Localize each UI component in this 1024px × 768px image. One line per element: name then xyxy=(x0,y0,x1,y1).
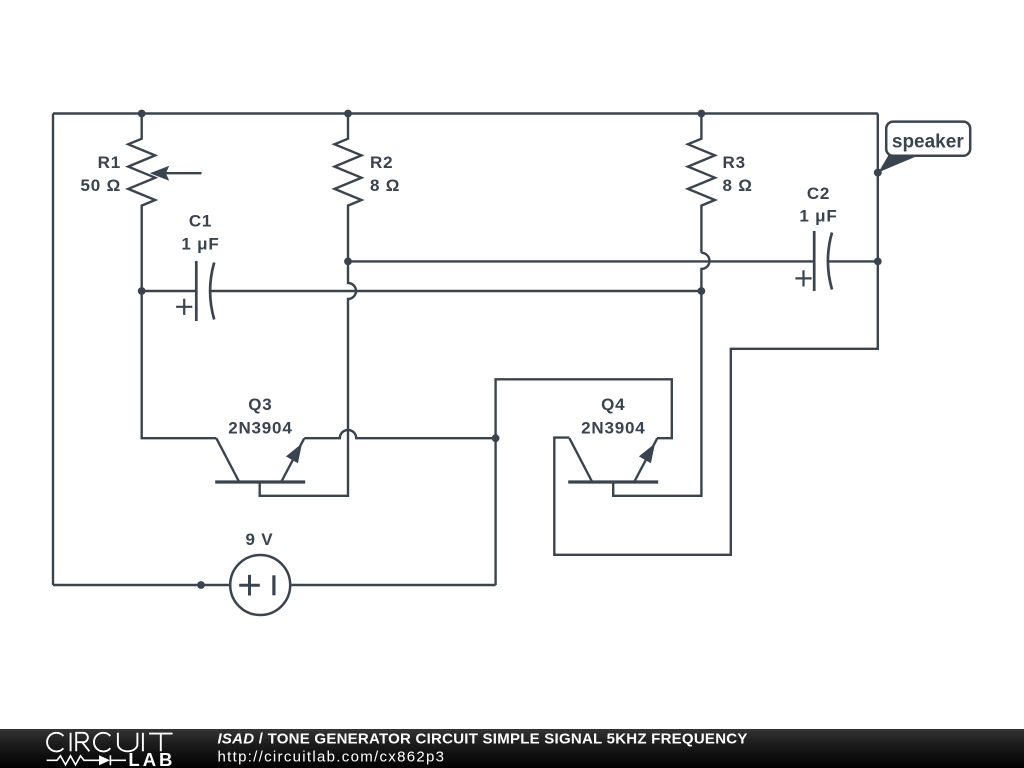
svg-text:Q4: Q4 xyxy=(601,395,625,414)
svg-text:50 Ω: 50 Ω xyxy=(81,176,121,195)
resistor R2 xyxy=(335,114,362,262)
svg-text:http://circuitlab.com/cx862p3: http://circuitlab.com/cx862p3 xyxy=(218,748,446,765)
junction node top R1 xyxy=(138,110,146,118)
svg-text:1 μF: 1 μF xyxy=(181,234,219,253)
wire bottom left to battery xyxy=(53,584,230,586)
wire cross couple emitter node to Q4 emitter xyxy=(496,379,672,438)
wire R2 node to C2 xyxy=(348,260,814,262)
wire emitter node down to battery rail xyxy=(494,438,496,585)
logo squiggle resistor diode xyxy=(47,755,126,765)
resistor R1 xyxy=(128,114,201,292)
logo CIRCUIT xyxy=(47,733,173,752)
transistor Q3 xyxy=(215,438,305,482)
junction node speaker tap xyxy=(874,169,882,177)
svg-text:R1: R1 xyxy=(98,153,121,172)
svg-text:LAB: LAB xyxy=(128,749,175,768)
svg-text:8 Ω: 8 Ω xyxy=(370,176,400,195)
junction node R1 C1 xyxy=(138,287,146,295)
svg-text:Q3: Q3 xyxy=(248,395,272,414)
wire R1/C1 node down to Q3 collector xyxy=(142,291,217,438)
junction node R2 bottom xyxy=(344,258,352,266)
capacitor C1 xyxy=(142,261,215,321)
junction node C2 output xyxy=(874,258,882,266)
wire C2 to output node xyxy=(828,260,877,262)
wire Q3 emitter to node (hops over base wire) xyxy=(304,430,495,438)
speaker callout pointer xyxy=(878,155,919,172)
svg-text:2N3904: 2N3904 xyxy=(581,419,645,438)
svg-text:C2: C2 xyxy=(807,184,830,203)
speaker callout box xyxy=(886,122,970,156)
resistor R3 xyxy=(688,114,715,253)
junction node top R3 xyxy=(698,110,706,118)
junction node battery xyxy=(197,581,205,589)
capacitor C2 xyxy=(795,231,832,291)
svg-text:8 Ω: 8 Ω xyxy=(723,176,753,195)
svg-text:R2: R2 xyxy=(370,153,393,172)
svg-text:R3: R3 xyxy=(723,153,746,172)
wire output rail down around to Q4 collector xyxy=(554,114,878,555)
svg-text:ISAD / TONE GENERATOR CIRCUIT: ISAD / TONE GENERATOR CIRCUIT SIMPLE SIG… xyxy=(218,731,748,748)
wire C1 to R3 node xyxy=(211,290,702,292)
svg-text:2N3904: 2N3904 xyxy=(228,419,292,438)
footer bar xyxy=(0,729,1024,768)
wire R2 node to Q3 base (hops over C1 wire) xyxy=(260,261,356,495)
svg-text:1 μF: 1 μF xyxy=(799,207,837,226)
voltage source V1 9V xyxy=(230,555,290,615)
wire left rail xyxy=(52,114,54,586)
wire top rail xyxy=(53,112,878,114)
junction node C1 R3 xyxy=(698,287,706,295)
junction node top R2 xyxy=(344,110,352,118)
svg-text:C1: C1 xyxy=(189,211,212,230)
wire R3 to Q4 base (hops over R2-C2 wire) xyxy=(613,253,709,496)
junction node emitters xyxy=(492,434,500,442)
transistor Q4 xyxy=(568,438,658,482)
svg-text:9 V: 9 V xyxy=(246,530,274,549)
svg-text:speaker: speaker xyxy=(892,131,964,152)
wire battery to emitter node xyxy=(290,584,495,586)
